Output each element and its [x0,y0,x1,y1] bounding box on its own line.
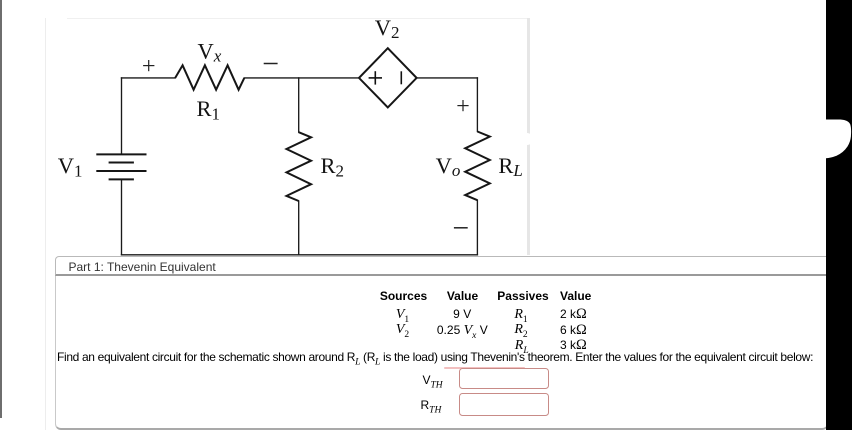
instruction paragraph [57,350,813,367]
table headers [380,289,427,303]
plus sign inside V2 [369,71,382,84]
svg-text:V1: V1 [58,153,83,180]
polarity minus at Vx right [264,63,278,65]
scroll button notch on schematic right border [521,133,533,145]
wire battery bottom to bottom rail [121,180,123,255]
wire RL bottom vertical [476,200,478,255]
VTH label [423,373,443,390]
svg-text:Vx: Vx [198,38,222,65]
wire R1 to diamond V2 [244,77,359,79]
wire RL top vertical [476,78,478,132]
polarity plus at Vo top [457,100,468,111]
table row 1 [396,307,409,325]
table row 2 [396,322,409,340]
battery source V1 [96,154,146,179]
polarity minus at Vo bottom [454,227,468,229]
table row 3 [515,338,529,356]
resistor R1 [175,65,244,89]
dependent source V2 diamond [359,48,417,107]
wire left vertical (node A down to battery) [121,78,123,154]
Part 1 title [69,260,216,274]
svg-text:R1: R1 [197,96,221,123]
page left edge line [0,0,2,418]
svg-text:R2: R2 [321,153,345,180]
spellcheck squiggle under Thevenin's [444,367,525,369]
minus bar inside V2 [400,71,402,84]
Part 1 header bar [55,256,828,276]
schematic image top border [67,18,528,19]
white notch on black strip [826,119,852,160]
wire diamond V2 to RL corner [417,77,478,79]
content panel box [55,276,828,430]
resistor R2 [287,132,312,201]
schematic image right border [527,18,530,255]
svg-text:V2: V2 [375,15,400,42]
content pane left border [45,18,46,430]
wire top-left (battery top to R1) [122,77,176,79]
right black strip [826,0,852,430]
RTH input box [459,393,549,416]
svg-text:RL: RL [498,153,522,180]
svg-text:Vo: Vo [436,153,461,180]
VTH input box [459,368,549,389]
wire R2 top (node B down to R2) [298,78,300,132]
wire bottom rail [122,254,478,256]
RTH label [421,398,442,415]
wire R2 bottom vertical [298,201,300,255]
polarity plus at Vx left [143,60,154,71]
resistor RL [465,132,490,201]
